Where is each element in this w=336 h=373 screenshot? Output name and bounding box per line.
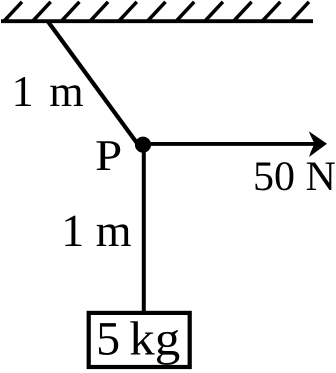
force arrow head <box>309 131 327 157</box>
ceiling hatch 2 <box>33 2 50 21</box>
svg-text:50 N: 50 N <box>253 154 336 200</box>
svg-text:P: P <box>95 131 122 180</box>
ceiling hatch 6 <box>148 2 165 21</box>
svg-text:1 m: 1 m <box>61 205 132 256</box>
force arrow shaft <box>143 142 316 146</box>
ceiling hatch 5 <box>119 2 136 21</box>
node P dot <box>135 137 151 153</box>
string from P to block <box>142 145 146 313</box>
ceiling line <box>1 19 313 23</box>
ceiling hatch 1 <box>5 2 22 21</box>
svg-text:1 m: 1 m <box>12 67 84 116</box>
svg-text:5 kg: 5 kg <box>96 312 180 365</box>
ceiling hatch 8 <box>206 2 223 21</box>
block 5 kg box <box>89 313 190 367</box>
ceiling hatch 7 <box>177 2 194 21</box>
ceiling hatch 11 <box>292 2 309 21</box>
ceiling hatch 4 <box>91 2 108 21</box>
ceiling hatch 9 <box>234 2 251 21</box>
rope from ceiling to P <box>48 21 139 145</box>
ceiling hatch 10 <box>263 2 280 21</box>
ceiling hatch 3 <box>62 2 79 21</box>
